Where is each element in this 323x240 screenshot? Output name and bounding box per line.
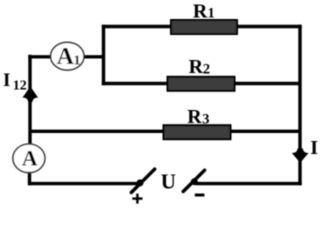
svg-text:12: 12 bbox=[13, 78, 27, 93]
source terminal right (dot and slash) bbox=[183, 170, 204, 191]
source terminal left (dot and slash) bbox=[131, 169, 154, 192]
plus sign bbox=[132, 194, 142, 204]
wire junction vertical left of R1/R2 bbox=[102, 25, 105, 85]
wire left vertical bbox=[28, 55, 31, 146]
svg-text:1: 1 bbox=[74, 54, 81, 69]
svg-text:I: I bbox=[310, 137, 318, 159]
svg-text:A: A bbox=[57, 44, 75, 70]
wire R3 branch bbox=[30, 130, 300, 133]
svg-text:U: U bbox=[161, 169, 176, 193]
current arrow I12 (up) bbox=[23, 86, 39, 102]
svg-text:A: A bbox=[22, 145, 38, 170]
svg-text:R: R bbox=[187, 106, 202, 128]
resistor R3 bbox=[164, 106, 231, 139]
svg-text:3: 3 bbox=[202, 111, 209, 127]
wire bottom right segment bbox=[196, 182, 302, 185]
ammeter A1 bbox=[51, 42, 84, 70]
svg-text:R: R bbox=[193, 0, 208, 22]
wire A1 right lead bbox=[81, 55, 105, 58]
label I12 bbox=[3, 70, 27, 93]
wire ammeter A bottom lead bbox=[28, 171, 31, 185]
resistor R2 bbox=[168, 56, 235, 91]
svg-text:I: I bbox=[3, 70, 10, 91]
wire R2 branch bbox=[102, 82, 300, 85]
wire right vertical bbox=[298, 25, 301, 186]
wire top branch R1 bbox=[102, 25, 302, 28]
wire A1 left lead bbox=[28, 55, 53, 58]
ammeter A bbox=[13, 144, 45, 173]
current arrow I (down) bbox=[292, 148, 309, 162]
svg-text:2: 2 bbox=[203, 61, 210, 77]
minus sign bbox=[195, 194, 205, 197]
resistor R1 bbox=[171, 0, 237, 34]
svg-text:1: 1 bbox=[208, 5, 215, 21]
svg-text:R: R bbox=[189, 56, 204, 78]
wire bottom left segment bbox=[28, 182, 140, 185]
